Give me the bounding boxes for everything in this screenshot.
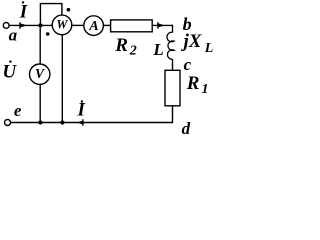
current arrow after R2 — [158, 22, 165, 29]
wire W to A — [72, 24, 84, 26]
svg-text:R: R — [114, 35, 128, 56]
label jXL — [181, 31, 214, 56]
resistor R2 — [111, 20, 153, 32]
svg-text:U: U — [2, 61, 17, 82]
wire coil to R1 — [172, 59, 174, 70]
svg-text:1: 1 — [202, 82, 209, 97]
svg-text:A: A — [88, 19, 98, 34]
inductor L coil — [167, 32, 174, 59]
wire A to R2 — [103, 24, 110, 26]
wire a to junction — [9, 24, 52, 26]
junction node bottom middle — [60, 120, 64, 124]
svg-text:2: 2 — [129, 44, 137, 59]
voltmeter branch wire bottom — [39, 84, 41, 122]
wattmeter W — [52, 15, 72, 35]
current arrow I bottom — [77, 119, 83, 126]
wattmeter polarity dot bottom — [46, 32, 50, 36]
svg-text:I: I — [77, 100, 86, 121]
voltmeter V — [30, 64, 50, 84]
wire corner b down to coil — [172, 25, 174, 33]
svg-text:I: I — [19, 1, 28, 22]
label U-dot — [2, 60, 17, 82]
wattmeter branch wire — [61, 35, 63, 123]
svg-text:L: L — [152, 40, 163, 59]
label I-dot bottom — [77, 100, 86, 121]
svg-text:jX: jX — [181, 31, 203, 52]
current arrow I top — [20, 22, 28, 29]
label R2 — [114, 35, 137, 59]
wattmeter voltage-coil loop wire — [40, 4, 62, 26]
svg-text:d: d — [182, 119, 191, 138]
voltmeter branch wire top — [39, 25, 41, 64]
svg-text:a: a — [9, 26, 18, 45]
wire R1 to corner d — [11, 106, 173, 123]
svg-text:c: c — [184, 55, 192, 74]
wire R2 to corner b — [152, 24, 172, 26]
svg-text:W: W — [56, 18, 68, 32]
svg-text:R: R — [186, 73, 200, 94]
label R1 — [186, 73, 209, 97]
junction node bottom left — [38, 120, 42, 124]
svg-text:V: V — [35, 66, 45, 81]
resistor R1 — [165, 70, 180, 106]
terminal a — [3, 23, 9, 29]
wattmeter polarity dot top — [67, 8, 71, 12]
terminal e — [5, 120, 11, 126]
svg-text:L: L — [204, 41, 214, 56]
label I-dot top — [19, 1, 28, 22]
svg-text:e: e — [14, 101, 22, 120]
junction node top — [38, 23, 42, 27]
ammeter A — [84, 16, 104, 36]
